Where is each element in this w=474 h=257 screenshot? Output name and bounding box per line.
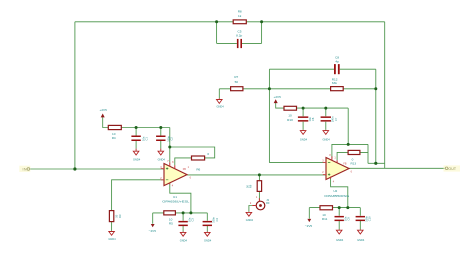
ground GND4 under R7 (216, 98, 224, 108)
wire R9 branch (258, 175, 260, 201)
wire J3 shield to ground (249, 206, 252, 212)
wire C1 leads (135, 128, 137, 149)
wire U2 negative supply pin (331, 178, 348, 207)
svg-text:−2V5: −2V5 (305, 224, 313, 228)
wire U2 V+ row (332, 144, 368, 158)
svg-text:FB: FB (183, 168, 186, 171)
power flag +2V5 (U2) (274, 95, 282, 103)
svg-text:U1: U1 (173, 195, 177, 199)
capacitor C3 (178, 217, 194, 226)
svg-text:4p: 4p (335, 59, 339, 63)
svg-text:GND4: GND4 (180, 239, 188, 243)
wire C8 loop (269, 69, 375, 163)
ground GND4 under R3 (108, 231, 116, 241)
svg-text:GND4: GND4 (300, 138, 308, 142)
svg-text:R10: R10 (287, 118, 293, 122)
svg-text:R11: R11 (322, 217, 328, 221)
svg-text:C4: C4 (215, 218, 219, 222)
capacitor C8 (334, 56, 340, 75)
wire C7 leads (325, 108, 327, 130)
resistor R5 (164, 211, 176, 226)
svg-text:+2V5: +2V5 (100, 108, 108, 112)
wire R3 to inverting input (112, 180, 164, 231)
ground GND4 under C1 (133, 149, 141, 162)
resistor R6 (feedback, value 0) (192, 152, 210, 160)
capacitor C6 (298, 116, 315, 121)
ground GND4 under C6 (300, 130, 308, 142)
resistor R3 (109, 211, 121, 222)
hierarchical label OUT (444, 165, 461, 171)
svg-text:R9: R9 (249, 184, 253, 188)
svg-text:U2: U2 (333, 189, 337, 193)
svg-text:0: 0 (207, 152, 209, 156)
svg-text:GND4: GND4 (158, 157, 166, 161)
svg-text:OUT: OUT (448, 167, 456, 171)
wire +2V5 rail U2 (276, 102, 349, 144)
svg-text:1k: 1k (238, 14, 242, 18)
svg-text:R4: R4 (112, 136, 116, 140)
resistor R13 (feedback, value 0) (348, 150, 360, 161)
capacitor C1 (131, 136, 148, 142)
ground GND4 under C2 (158, 149, 166, 162)
capacitor C10 (356, 215, 372, 221)
ground GND4 at J3 (246, 212, 254, 222)
svg-text:OPA656U+ESL: OPA656U+ESL (162, 200, 189, 204)
power flag -2V5 (U1) (149, 224, 157, 233)
svg-text:GND4: GND4 (246, 218, 254, 222)
wire input net (30, 168, 164, 170)
resistor R9 (245, 181, 261, 192)
svg-text:GND4: GND4 (216, 104, 224, 108)
svg-text:GND4: GND4 (204, 239, 212, 243)
wire -2V5 rail U2 (309, 208, 360, 219)
svg-text:C10: C10 (368, 216, 372, 221)
ground GND4 under C7 (322, 130, 330, 142)
svg-text:IN: IN (22, 167, 27, 171)
resistor R10 (284, 106, 297, 122)
ground GND4 under C4 (204, 232, 212, 243)
svg-text:C7: C7 (334, 117, 338, 121)
capacitor C7 (321, 116, 338, 122)
wire C9 leads (338, 208, 340, 230)
svg-text:R13: R13 (350, 161, 356, 165)
svg-text:GND4: GND4 (336, 238, 344, 242)
wire +2V5 rail U1 (103, 117, 170, 162)
power flag +2V5 (U1) (100, 108, 108, 117)
power flag -2V5 (U2) (305, 219, 313, 228)
capacitor C9 (335, 216, 351, 221)
wire R6 feedback loop U1 (170, 147, 215, 165)
wire R13 feedback loop U2 (337, 144, 368, 163)
svg-text:R5: R5 (169, 221, 173, 225)
wire U1 negative supply pin (170, 184, 191, 213)
svg-text:C6: C6 (311, 117, 315, 121)
capacitor C2 (156, 135, 174, 141)
svg-text:+2V5: +2V5 (274, 95, 282, 99)
wire U1 output (187, 174, 326, 176)
wire -2V5 rail U1 (153, 213, 208, 224)
svg-text:C2: C2 (170, 137, 174, 141)
svg-text:FB: FB (343, 163, 346, 166)
svg-text:R3: R3 (118, 214, 122, 218)
wire C10 leads (359, 208, 361, 230)
svg-text:C1: C1 (145, 137, 149, 141)
svg-text:C9: C9 (347, 217, 351, 221)
wire C5 bypass branch (217, 22, 262, 44)
op-amp U1 (160, 160, 200, 204)
wire R7 R12 row (219, 88, 375, 90)
svg-text:GND4: GND4 (133, 157, 141, 161)
ground GND4 under C3 (180, 232, 188, 243)
svg-text:RF: RF (266, 201, 270, 205)
resistor R4 (108, 125, 121, 140)
wire top feedback loop (75, 22, 385, 169)
wire R7 ground drop (218, 89, 220, 99)
svg-text:C3: C3 (191, 218, 195, 222)
svg-text:GND4: GND4 (322, 138, 330, 142)
resistor R7 (231, 75, 243, 91)
connector J3 (250, 196, 270, 210)
capacitor C4 (203, 216, 219, 226)
svg-text:GND4: GND4 (108, 237, 116, 241)
svg-text:−2V5: −2V5 (149, 229, 157, 233)
capacitor C5 (236, 30, 242, 48)
wire C2 leads (160, 128, 162, 149)
resistor R11 (320, 206, 333, 221)
wire C3 leads (182, 213, 184, 232)
svg-text:R6: R6 (196, 167, 200, 171)
wire U2 output to OUT (349, 167, 445, 169)
svg-text:R7: R7 (234, 75, 238, 79)
svg-text:GND4: GND4 (357, 238, 365, 242)
svg-text:63k: 63k (332, 81, 337, 85)
resistor R12 (331, 78, 344, 91)
wire U2 inverting input column (269, 69, 326, 162)
ground GND4 under C10 (357, 229, 365, 242)
svg-text:OPA855IDSG: OPA855IDSG (324, 194, 350, 198)
op-amp U2 (322, 154, 356, 198)
wire FB net to output (368, 163, 385, 168)
svg-text:50: 50 (235, 80, 239, 84)
ground GND4 under C9 (336, 229, 344, 242)
wire C4 leads (206, 213, 208, 232)
wire C6 leads (302, 108, 304, 130)
svg-text:8.2p: 8.2p (236, 33, 242, 37)
hierarchical label IN (19, 166, 30, 172)
resistor R8 (233, 10, 246, 24)
